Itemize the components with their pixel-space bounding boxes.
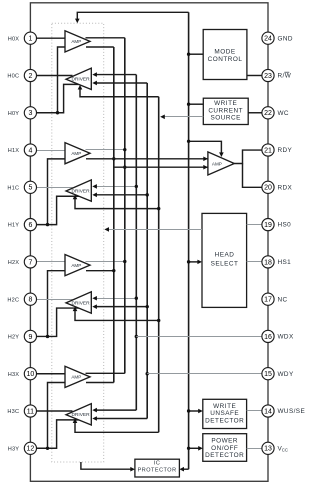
wire mode bus to MODE CONTROL [189, 53, 204, 55]
wire write-current select into DRIVER0 bottom [80, 88, 159, 96]
wire write bus X to DRIVER2 upper input [97, 298, 137, 300]
svg-text:DETECTOR: DETECTOR [205, 452, 244, 459]
svg-text:DRIVER: DRIVER [71, 77, 90, 83]
svg-text:WRITE: WRITE [213, 403, 236, 410]
svg-text:3: 3 [28, 110, 32, 117]
write driver DRIVER1 [66, 180, 91, 201]
svg-text:HS0: HS0 [278, 222, 292, 229]
svg-text:H0X: H0X [8, 36, 20, 42]
pin 6 H1Y [24, 219, 36, 231]
wire AMP0 upper output to read bus B [86, 37, 125, 39]
svg-text:SELECT: SELECT [211, 261, 239, 268]
pin 17 NC [262, 293, 274, 305]
svg-text:19: 19 [264, 222, 272, 229]
pin 5 H1C [24, 181, 36, 193]
svg-text:4: 4 [28, 147, 32, 154]
svg-text:MODE: MODE [214, 49, 235, 56]
wire write bus X to DRIVER1 upper input [97, 186, 137, 188]
svg-text:H2X: H2X [8, 260, 20, 266]
wire WDY pin 15 to write bus Y [147, 373, 262, 375]
svg-text:21: 21 [264, 147, 272, 154]
pin 3 H0Y [24, 107, 36, 119]
IC package outline [30, 3, 268, 482]
svg-text:H3X: H3X [8, 372, 20, 378]
pin 10 H3X [24, 368, 36, 380]
svg-text:WDY: WDY [278, 371, 294, 378]
svg-text:H2C: H2C [7, 297, 19, 303]
wire AMP3 lower input from H3Y node [48, 383, 66, 449]
wire HS1 pin 18 to HEAD SELECT [247, 261, 263, 263]
junction dots on read bus B [123, 148, 126, 151]
svg-text:AMP: AMP [71, 375, 81, 380]
wire WDX pin 16 to write bus X [136, 336, 262, 338]
svg-text:DRIVER: DRIVER [71, 300, 90, 306]
svg-text:UNSAFE: UNSAFE [210, 410, 239, 417]
svg-text:IC: IC [154, 461, 161, 467]
write data bus X vertical [135, 75, 137, 411]
MODE CONTROL block [203, 30, 247, 80]
wire write-current select into DRIVER1 bottom [75, 198, 159, 208]
svg-text:17: 17 [264, 297, 272, 304]
svg-text:SOURCE: SOURCE [211, 115, 241, 122]
wire AMP1 upper output to read bus B [86, 149, 125, 151]
svg-text:14: 14 [264, 408, 272, 415]
POWER ON/OFF DETECTOR block [203, 434, 247, 462]
svg-text:24: 24 [264, 36, 272, 43]
wire AMP1 lower input from H1Y node [48, 159, 66, 225]
wire HS0 pin 19 to HEAD SELECT [247, 224, 263, 226]
write current bus vertical [158, 97, 160, 433]
wire H3X pin to read amp AMP3 input [36, 373, 65, 375]
dashed head-amplifier block boundary [52, 23, 104, 462]
pin 16 WDX [262, 330, 274, 342]
wire H2Y pin to DRIVER2 lower output [36, 308, 79, 336]
svg-text:8: 8 [28, 297, 32, 304]
HEAD SELECT block [202, 213, 247, 307]
svg-text:7: 7 [28, 259, 32, 266]
svg-text:NC: NC [278, 296, 288, 303]
svg-text:AMP: AMP [212, 161, 222, 166]
svg-text:16: 16 [264, 334, 272, 341]
pin 14 WUS/SE [262, 405, 274, 417]
svg-text:H0C: H0C [7, 74, 19, 80]
IC PROTECTOR block [135, 459, 180, 477]
svg-text:13: 13 [264, 446, 272, 453]
svg-text:1: 1 [28, 36, 32, 43]
svg-text:AMP: AMP [71, 39, 81, 44]
svg-text:H1C: H1C [7, 185, 19, 191]
pin 1 H0X [24, 32, 36, 44]
read amp AMP3 [65, 366, 90, 387]
pin 4 H1X [24, 144, 36, 156]
svg-text:18: 18 [264, 259, 272, 266]
wire AMP3 upper output to read bus B [86, 372, 125, 374]
svg-text:11: 11 [27, 408, 34, 415]
svg-text:R/W: R/W [278, 73, 292, 80]
read amp AMP1 [65, 143, 90, 164]
svg-text:H0Y: H0Y [8, 111, 20, 117]
svg-text:9: 9 [28, 334, 32, 341]
pin 2 H0C [24, 69, 36, 81]
read bus B vertical [124, 38, 126, 374]
wire H0C pin to write driver DRIVER0 output [36, 74, 72, 76]
WRITE CURRENT SOURCE block [203, 98, 248, 124]
write driver DRIVER3 [66, 404, 91, 425]
wire write-current select into DRIVER3 bottom [75, 422, 159, 432]
wire AMP0 lower input from H0Y node [58, 47, 66, 113]
wire U1 output to RDY pin 21 [234, 150, 262, 163]
mode line arrow into read amp U1 top [189, 141, 222, 153]
svg-text:H2Y: H2Y [8, 335, 20, 341]
selected-channel read amp U1 [208, 152, 234, 175]
wire H1X pin to read amp AMP1 input [36, 150, 65, 152]
wire mode bus to WRITE CURRENT SOURCE [189, 103, 204, 105]
wire write bus Y to DRIVER2 lower input [97, 306, 148, 308]
pin 13 VCC [262, 442, 274, 454]
wire mode bus arrow into POWER ON/OFF DETECTOR [189, 447, 200, 449]
pin 21 RDY [262, 144, 274, 156]
svg-text:ON/OFF: ON/OFF [211, 445, 238, 452]
svg-text:RDY: RDY [278, 147, 293, 154]
wire HEAD SELECT output to amplifier block [107, 229, 203, 231]
wire H0X pin to read amp AMP0 input [36, 37, 65, 39]
read bus A vertical [113, 47, 115, 383]
pin 11 H3C [24, 405, 36, 417]
wire mode bus into IC PROTECTOR right side [182, 468, 188, 470]
wire MODE CONTROL to R/W pin 23 [247, 74, 262, 76]
svg-text:AMP: AMP [71, 151, 81, 156]
wire WRITE CURRENT SOURCE to write current bus [163, 116, 204, 118]
svg-text:AMP: AMP [71, 263, 81, 268]
svg-text:15: 15 [264, 371, 272, 378]
svg-text:CURRENT: CURRENT [208, 107, 243, 114]
svg-text:DRIVER: DRIVER [71, 189, 90, 195]
svg-text:RDX: RDX [278, 184, 293, 191]
wire AMP2 lower output to read bus A [86, 270, 114, 272]
pin 9 H2Y [24, 330, 36, 342]
pin 19 HS0 [262, 219, 274, 231]
wire WRITE CURRENT SOURCE to WC pin 22 [248, 112, 262, 114]
svg-text:PROTECTOR: PROTECTOR [138, 468, 177, 474]
svg-text:HEAD: HEAD [215, 252, 235, 259]
svg-text:H1X: H1X [8, 148, 20, 154]
wire AMP2 upper output to read bus B [86, 261, 125, 263]
junction dots on write bus Y [146, 193, 149, 196]
wire amplifier block to IC PROTECTOR [81, 462, 132, 469]
pin 12 H3Y [24, 442, 36, 454]
svg-text:6: 6 [28, 222, 32, 229]
svg-text:WC: WC [278, 110, 289, 117]
pin 23 RW [262, 69, 274, 81]
svg-text:H3C: H3C [7, 409, 19, 415]
svg-text:DETECTOR: DETECTOR [205, 418, 244, 425]
wire write-current select into DRIVER2 bottom [75, 310, 159, 320]
svg-text:WRITE: WRITE [214, 100, 237, 107]
wire mode bus arrow into HEAD SELECT [189, 261, 199, 263]
svg-text:10: 10 [27, 371, 35, 378]
svg-text:2: 2 [28, 73, 32, 80]
read amp AMP0 [65, 31, 90, 52]
svg-text:POWER: POWER [211, 438, 238, 445]
svg-text:20: 20 [264, 185, 272, 192]
junction H1Y node [46, 223, 49, 226]
junction dots on write current bus [157, 207, 160, 210]
svg-text:23: 23 [264, 73, 272, 80]
junction dots on write bus X [135, 185, 138, 188]
junction H2Y node [46, 335, 49, 338]
read amp AMP2 [65, 255, 90, 276]
pin 15 WDY [262, 368, 274, 380]
wire H3C pin to write driver DRIVER3 output [36, 410, 72, 412]
svg-text:5: 5 [28, 185, 32, 192]
junction H3Y node [46, 447, 49, 450]
wire H3Y pin to DRIVER3 lower output [36, 420, 79, 448]
svg-text:22: 22 [264, 110, 272, 117]
pin 24 GND [262, 32, 274, 44]
wire write bus X to DRIVER0 upper input [97, 74, 137, 76]
R/W mode line from MODE CONTROL bus to amplifier block (arrow into dashed box) [77, 12, 188, 20]
svg-text:H3Y: H3Y [8, 446, 20, 452]
svg-text:12: 12 [27, 446, 35, 453]
junction dots on read bus A [112, 157, 115, 160]
pin 8 H2C [24, 293, 36, 305]
svg-text:DRIVER: DRIVER [71, 412, 90, 418]
wire mode bus arrow into WRITE UNSAFE DETECTOR [189, 410, 200, 412]
write driver DRIVER0 [66, 68, 91, 89]
wire AMP3 lower output to read bus A [86, 382, 114, 384]
write data bus Y vertical [146, 83, 148, 419]
pin 18 HS1 [262, 256, 274, 268]
svg-text:GND: GND [278, 35, 293, 42]
wire WRITE UNSAFE DETECTOR to WUS/SE pin 14 [247, 410, 263, 412]
wire write bus Y to DRIVER1 lower input [97, 194, 148, 196]
wire H1C pin to write driver DRIVER1 output [36, 187, 72, 189]
pin 7 H2X [24, 256, 36, 268]
write driver DRIVER2 [66, 292, 91, 313]
wire POWER ON/OFF DETECTOR to Vcc pin 13 [247, 448, 263, 450]
wire write bus X to DRIVER3 upper input [97, 409, 137, 411]
wire H2C pin to write driver DRIVER2 output [36, 299, 72, 301]
wire write bus Y to DRIVER3 lower input [97, 418, 148, 420]
svg-text:HS1: HS1 [278, 259, 292, 266]
wire AMP0 lower output to read bus A [86, 46, 114, 48]
wire U1 output to RDX pin 20 [243, 164, 263, 188]
read bus horizontals into head-select read amp U1 [86, 158, 208, 160]
wire H1Y pin to DRIVER1 lower output [36, 196, 79, 224]
junction H0Y node [56, 111, 59, 114]
svg-text:CONTROL: CONTROL [208, 56, 243, 63]
wire H0Y pin to DRIVER0 lower output [36, 84, 79, 112]
svg-text:WUS/SE: WUS/SE [278, 408, 306, 415]
WRITE UNSAFE DETECTOR block [203, 399, 247, 428]
wire AMP2 lower input from H2Y node [48, 271, 66, 337]
pin 22 WC [262, 107, 274, 119]
wire write bus Y to DRIVER0 lower input [97, 82, 148, 84]
mode control vertical bus [188, 12, 190, 469]
svg-text:WDX: WDX [278, 334, 294, 341]
svg-text:H1Y: H1Y [8, 223, 20, 229]
wire H2X pin to read amp AMP2 input [36, 261, 65, 263]
pin 20 RDX [262, 181, 274, 193]
